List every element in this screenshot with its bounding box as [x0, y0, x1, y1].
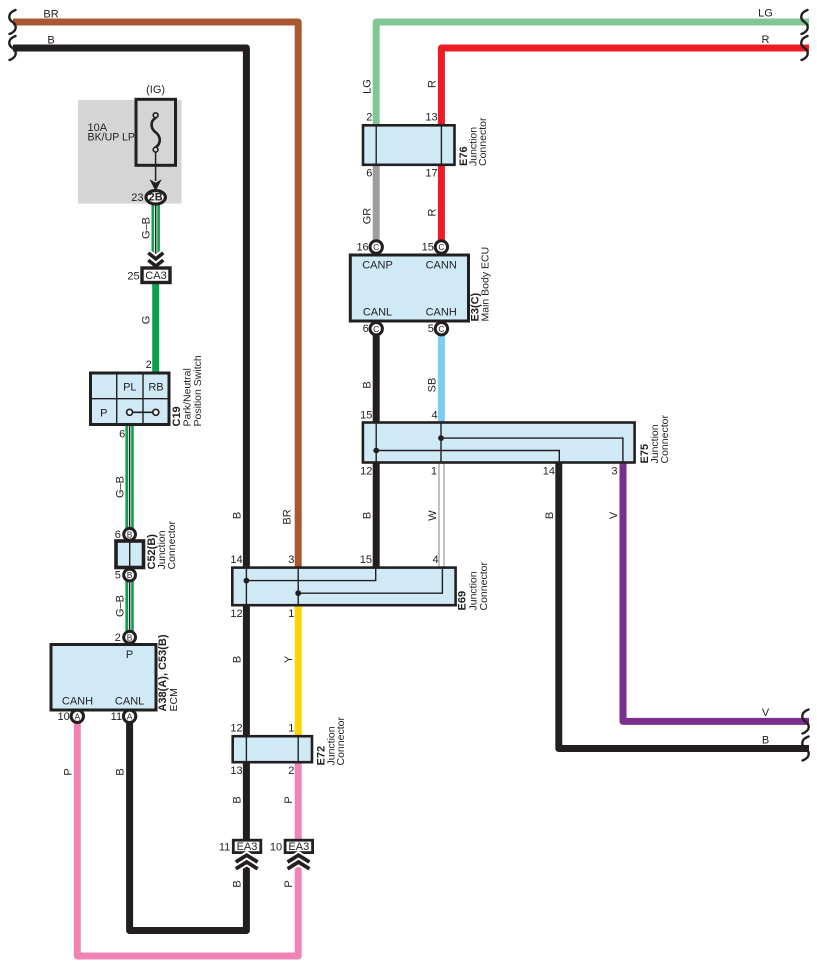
break squiggle left B — [9, 36, 15, 60]
double chevron arrow up (pink wire into EA3 10) — [288, 855, 310, 869]
svg-text:BK/UP LP: BK/UP LP — [88, 132, 136, 144]
fuse output wire (thin) — [155, 152, 157, 181]
svg-text:17: 17 — [425, 168, 437, 180]
E3(C) pin 16 terminal circle C — [370, 241, 382, 253]
svg-text:13: 13 — [425, 112, 437, 124]
svg-text:23: 23 — [131, 192, 143, 204]
wire G-B (green/black stripe) connector 2B to CA3 — [153, 203, 159, 268]
svg-text:P: P — [100, 408, 107, 420]
svg-text:C: C — [373, 324, 379, 334]
svg-text:Connector: Connector — [478, 562, 490, 611]
connector CA3 — [142, 268, 170, 283]
svg-text:Position Switch: Position Switch — [192, 355, 204, 426]
wire W (white with gray edges) E75 pin 1 to E69 pin 4 — [439, 462, 444, 567]
svg-text:R: R — [762, 34, 770, 46]
E3(C) pin 5 terminal circle C — [435, 323, 447, 335]
svg-text:B: B — [127, 570, 133, 580]
svg-text:16: 16 — [356, 242, 368, 254]
svg-text:CA3: CA3 — [145, 270, 166, 282]
svg-text:GR: GR — [361, 208, 373, 225]
svg-text:LG: LG — [361, 79, 373, 94]
svg-text:(IG): (IG) — [146, 84, 165, 96]
svg-text:2: 2 — [366, 112, 372, 124]
svg-text:6: 6 — [363, 323, 369, 335]
svg-text:RB: RB — [148, 382, 163, 394]
svg-text:11: 11 — [111, 711, 122, 723]
svg-text:6: 6 — [119, 429, 125, 441]
svg-text:V: V — [608, 511, 620, 519]
svg-text:B: B — [127, 632, 133, 642]
svg-text:10: 10 — [58, 711, 70, 723]
label E69 Junction Connector — [457, 562, 491, 611]
ECM A38(A), C53(B) — [51, 645, 156, 711]
svg-text:C: C — [373, 242, 379, 252]
wire Y (yellow) E69 pin 1 to E72 pin 1 — [295, 605, 302, 736]
ECM pin 10 terminal circle A — [71, 710, 83, 722]
svg-text:CANP: CANP — [362, 260, 393, 272]
wire B (black) E69 pin 12 to E72 pin 12 — [243, 605, 250, 736]
wire B (black) E75 pin 14 to bottom right edge — [559, 462, 809, 748]
park/neutral position switch C19 — [91, 373, 170, 425]
svg-text:CANL: CANL — [363, 307, 392, 319]
wire B (black) E75 pin 12 to E69 pin 15 — [373, 462, 380, 567]
wire G-B (green/black stripe) C19 pin 6 to C52(B) pin 6 — [127, 424, 133, 529]
svg-text:SB: SB — [427, 378, 439, 393]
svg-text:B: B — [232, 512, 244, 519]
wire BR (brown) from left edge to E69 pin 3 — [13, 22, 298, 568]
svg-text:B: B — [47, 35, 54, 47]
svg-text:A: A — [127, 712, 133, 722]
svg-text:15: 15 — [422, 242, 434, 254]
break squiggle right LG — [801, 10, 807, 34]
svg-text:12: 12 — [230, 722, 242, 734]
wire SB (sky blue) E3(C) pin 5 CANH to E75 pin 4 — [438, 334, 445, 423]
svg-text:P: P — [283, 796, 295, 803]
C52(B) pin 5 terminal circle B — [124, 569, 136, 581]
fuse block background (10A BK/UP LP) — [78, 100, 182, 204]
connector 2B (oval) — [146, 191, 165, 204]
svg-text:25: 25 — [127, 271, 139, 283]
svg-text:15: 15 — [360, 554, 372, 566]
svg-text:W: W — [427, 510, 439, 521]
svg-text:G–B: G–B — [114, 595, 126, 617]
svg-text:BR: BR — [43, 9, 58, 21]
svg-text:C: C — [438, 242, 444, 252]
connector EA3 (pin 10) — [285, 840, 313, 853]
ECM pin 2 terminal circle B — [124, 631, 136, 643]
E3(C) pin 6 terminal circle C — [370, 323, 382, 335]
svg-text:CANN: CANN — [426, 260, 457, 272]
svg-text:13: 13 — [230, 765, 242, 777]
svg-text:Connector: Connector — [166, 521, 178, 570]
wire G (green) CA3 to C19 pin 2 — [152, 282, 159, 373]
svg-text:2: 2 — [288, 765, 294, 777]
label E75 Junction Connector — [639, 415, 671, 464]
wire B (black) ECM pin 11 to EA3 pin 11 via bottom run — [130, 722, 247, 931]
fuse 10A BK/UP LP — [136, 99, 176, 165]
label E72 Junction Connector — [316, 717, 348, 766]
svg-text:12: 12 — [360, 465, 372, 477]
wire G-B (green/black stripe) C52(B) pin 5 to ECM pin 2 — [127, 581, 133, 632]
svg-text:B: B — [127, 530, 133, 540]
svg-text:14: 14 — [230, 554, 242, 566]
arrow into connector 2B — [150, 179, 162, 191]
svg-text:BR: BR — [282, 509, 294, 524]
svg-text:2: 2 — [115, 632, 121, 644]
junction connector E69 — [232, 568, 455, 606]
wire P (pink) ECM pin 10 to EA3 pin 10 via bottom run — [77, 722, 298, 957]
svg-text:P: P — [126, 649, 133, 661]
svg-text:B: B — [361, 381, 373, 388]
junction connector E72 — [233, 736, 312, 762]
svg-text:P: P — [283, 880, 295, 887]
label E3(C) Main Body ECU — [470, 247, 492, 322]
svg-text:12: 12 — [230, 608, 242, 620]
svg-text:Connector: Connector — [477, 117, 489, 166]
svg-text:R: R — [427, 80, 439, 88]
svg-text:B: B — [361, 512, 373, 519]
label C19 Park/Neutral Position Switch — [171, 355, 204, 426]
svg-text:B: B — [232, 796, 244, 803]
svg-text:G: G — [141, 316, 153, 325]
svg-text:B: B — [232, 880, 244, 887]
svg-text:Connector: Connector — [335, 717, 347, 766]
label C52(B) Junction Connector — [146, 521, 178, 570]
svg-text:14: 14 — [543, 465, 555, 477]
connector EA3 (pin 11) — [233, 840, 260, 853]
svg-text:2: 2 — [146, 359, 152, 371]
junction connector C52(B) — [116, 541, 144, 568]
svg-text:LG: LG — [758, 8, 773, 20]
svg-text:5: 5 — [428, 323, 434, 335]
svg-text:4: 4 — [432, 554, 438, 566]
double chevron arrow into CA3 — [148, 253, 163, 266]
label 10A BK/UP LP — [88, 122, 136, 144]
ECM pin 11 terminal circle A — [123, 710, 135, 722]
svg-text:A: A — [74, 712, 80, 722]
wire B (black) E72 pin 13 to connector EA3 pin 11 — [243, 762, 250, 840]
wire GR (gray) E76 pin 6 to E3(C) pin 16 — [373, 165, 380, 242]
svg-text:B: B — [114, 768, 126, 775]
junction connector E75 — [363, 423, 635, 463]
svg-text:4: 4 — [431, 409, 437, 421]
wire V (purple) E75 pin 3 to bottom right edge — [623, 462, 809, 721]
break squiggle right B (bottom) — [802, 737, 808, 761]
svg-text:Main Body ECU: Main Body ECU — [480, 247, 492, 322]
wire B (black) from left edge to E69 pin 14 — [13, 48, 246, 568]
label E76 Junction Connector — [458, 117, 489, 166]
wire P (pink) E72 pin 2 to connector EA3 pin 10 — [295, 762, 302, 840]
main body ECU E3(C) — [350, 255, 468, 321]
double chevron arrow up (black wire into EA3 11) — [236, 855, 258, 869]
svg-text:B: B — [544, 512, 556, 519]
wire B (black) E3(C) pin 6 CANL to E75 pin 15 — [373, 334, 380, 423]
E3(C) pin 15 terminal circle C — [435, 241, 447, 253]
svg-text:10: 10 — [270, 841, 282, 853]
svg-text:2B: 2B — [149, 192, 163, 204]
svg-text:1: 1 — [431, 465, 437, 477]
svg-text:CANH: CANH — [426, 307, 457, 319]
svg-text:B: B — [762, 735, 769, 747]
svg-text:CANH: CANH — [62, 696, 93, 708]
svg-text:3: 3 — [288, 554, 294, 566]
svg-text:PL: PL — [123, 382, 136, 394]
svg-text:G–B: G–B — [114, 476, 126, 498]
svg-text:V: V — [762, 707, 770, 719]
svg-text:5: 5 — [115, 570, 121, 582]
svg-text:B: B — [232, 656, 244, 663]
svg-text:1: 1 — [288, 722, 294, 734]
svg-text:CANL: CANL — [115, 696, 144, 708]
svg-text:Y: Y — [283, 655, 295, 663]
wire R (red) from right edge to E76 pin 13 — [441, 48, 809, 126]
junction connector E76 — [363, 125, 455, 165]
svg-text:Connector: Connector — [659, 415, 671, 464]
break squiggle left BR — [9, 10, 15, 34]
svg-text:G–B: G–B — [141, 217, 153, 239]
svg-text:ECM: ECM — [168, 688, 180, 711]
svg-text:15: 15 — [360, 409, 372, 421]
svg-text:P: P — [63, 768, 75, 775]
svg-text:6: 6 — [366, 168, 372, 180]
svg-text:C: C — [438, 324, 444, 334]
svg-text:11: 11 — [219, 841, 230, 853]
svg-text:1: 1 — [288, 608, 294, 620]
svg-text:R: R — [427, 208, 439, 216]
wire LG (light green) from right edge to E76 pin 2 — [376, 22, 809, 126]
svg-text:3: 3 — [611, 465, 617, 477]
break squiggle right V — [802, 710, 808, 734]
label A38(A), C53(B) ECM — [157, 634, 180, 711]
break squiggle right R — [801, 36, 807, 60]
C52(B) pin 6 terminal circle B — [124, 528, 136, 540]
wire R (red) E76 pin 17 to E3(C) pin 15 — [438, 165, 445, 242]
